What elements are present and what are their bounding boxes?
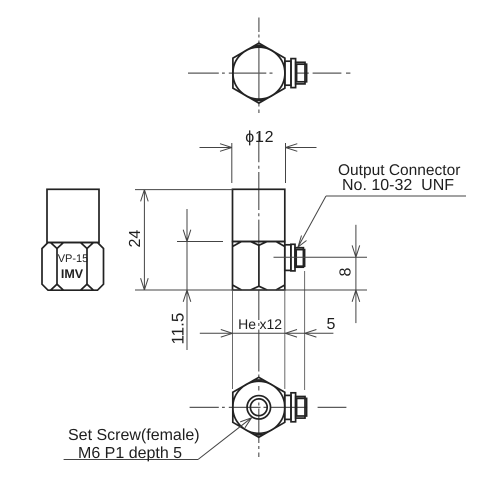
svg-text:He: He	[238, 316, 256, 332]
svg-text:No. 10-32 UNF: No. 10-32 UNF	[342, 177, 454, 194]
svg-text:M6 P1 depth 5: M6 P1 depth 5	[78, 445, 182, 462]
svg-text:VP-15: VP-15	[58, 253, 89, 265]
svg-text:IMV: IMV	[61, 267, 84, 281]
svg-text:Set Screw(female): Set Screw(female)	[68, 427, 200, 444]
svg-text:5: 5	[327, 316, 336, 333]
svg-text:24: 24	[127, 230, 144, 248]
svg-text:ϕ12: ϕ12	[245, 129, 274, 146]
svg-text:x12: x12	[260, 316, 283, 332]
svg-text:8: 8	[338, 267, 355, 276]
svg-text:11.5: 11.5	[169, 313, 188, 345]
